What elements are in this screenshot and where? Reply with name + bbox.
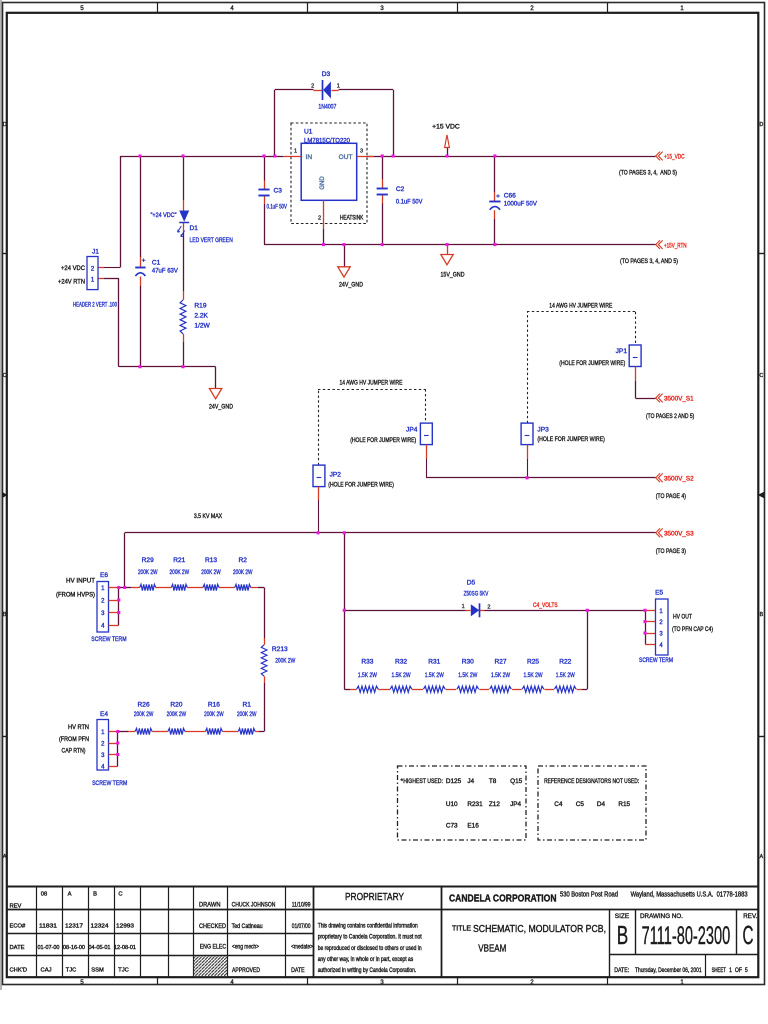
svg-text:C73: C73 bbox=[446, 822, 458, 829]
svg-text:B: B bbox=[93, 892, 97, 898]
svg-text:11831: 11831 bbox=[39, 924, 57, 930]
node C4_VOLTS label bbox=[533, 602, 558, 609]
svg-text:Z12: Z12 bbox=[489, 801, 500, 808]
junctions E4 bbox=[116, 730, 119, 756]
wire JP3 to 3500V_S2 bbox=[527, 445, 529, 478]
resistor R32 bbox=[390, 658, 412, 692]
svg-text:authorized in writing by Cande: authorized in writing by Candela Corpora… bbox=[318, 967, 417, 974]
svg-text:B: B bbox=[617, 920, 629, 950]
svg-text:A: A bbox=[68, 892, 72, 898]
svg-text:SCREW TERM: SCREW TERM bbox=[91, 636, 126, 643]
svg-text:R21: R21 bbox=[173, 557, 185, 564]
svg-text:C2: C2 bbox=[396, 186, 405, 193]
svg-text:R25: R25 bbox=[527, 658, 539, 665]
resistor R213 bbox=[261, 638, 295, 683]
power +15 VDC bbox=[432, 123, 460, 156]
svg-text:15V_GND: 15V_GND bbox=[441, 272, 465, 279]
wire C3 branch bbox=[264, 156, 266, 245]
svg-text:C66: C66 bbox=[504, 193, 516, 200]
svg-text:+15V_RTN: +15V_RTN bbox=[664, 242, 687, 249]
off-page connector +15_VDC bbox=[619, 152, 685, 177]
svg-text:47uF 63V: 47uF 63V bbox=[152, 267, 179, 274]
junctions 24V rail at C1/R19 bbox=[138, 365, 184, 368]
wire JP4 to 3500V_S2 bbox=[426, 445, 428, 478]
svg-text:R1: R1 bbox=[242, 702, 251, 709]
svg-text:12317: 12317 bbox=[65, 924, 83, 930]
junctions top bus bbox=[138, 154, 496, 157]
svg-text:R231: R231 bbox=[467, 801, 483, 808]
svg-text:200K 2W: 200K 2W bbox=[204, 711, 224, 718]
svg-text:1 OF 5: 1 OF 5 bbox=[729, 967, 748, 974]
svg-text:200K 2W: 200K 2W bbox=[233, 569, 253, 576]
svg-text:E4: E4 bbox=[100, 711, 108, 718]
E5 pin stubs and tie bbox=[645, 610, 656, 644]
op-amp U1 LM7815C regulator bbox=[291, 123, 367, 224]
svg-text:SIZE: SIZE bbox=[615, 913, 630, 920]
svg-text:D3: D3 bbox=[322, 71, 331, 78]
svg-text:2.2K: 2.2K bbox=[194, 313, 208, 320]
svg-text:1: 1 bbox=[462, 604, 465, 610]
svg-text:TITLE: TITLE bbox=[452, 924, 471, 933]
svg-text:(TO PFN CAP C4): (TO PFN CAP C4) bbox=[672, 626, 713, 633]
wire HV input chain bbox=[119, 588, 265, 639]
wire D1/R19 branch bbox=[183, 156, 185, 367]
svg-text:CANDELA CORPORATION: CANDELA CORPORATION bbox=[449, 893, 557, 904]
wire 3500V_S3 to C4_VOLTS drop bbox=[344, 533, 346, 689]
svg-text:200K 2W: 200K 2W bbox=[201, 569, 221, 576]
svg-text:<medate>: <medate> bbox=[291, 944, 313, 951]
connector E6 bbox=[56, 572, 127, 643]
svg-text:R26: R26 bbox=[138, 702, 150, 709]
svg-text:200K 2W: 200K 2W bbox=[170, 569, 190, 576]
svg-text:B: B bbox=[3, 612, 7, 618]
svg-text:HV OUT: HV OUT bbox=[673, 613, 692, 620]
ground 24V_GND (regulator) bbox=[338, 267, 363, 289]
wire C4_VOLTS net bbox=[344, 610, 645, 612]
capacitor C2 bbox=[377, 186, 423, 205]
svg-text:TJC: TJC bbox=[118, 968, 129, 974]
svg-text:JP2: JP2 bbox=[330, 471, 342, 478]
svg-text:HV INPUT: HV INPUT bbox=[66, 578, 95, 585]
wire +24V top bus bbox=[120, 156, 656, 268]
svg-text:C1: C1 bbox=[152, 259, 161, 266]
svg-text:C: C bbox=[760, 373, 764, 379]
svg-text:1.5K 2W: 1.5K 2W bbox=[458, 672, 478, 679]
capacitor C1 bbox=[135, 258, 178, 276]
wire R213 to HV RTN chain bbox=[264, 683, 266, 732]
U1 pin 2 bbox=[318, 200, 324, 244]
wire 1.5K chain bbox=[344, 689, 587, 691]
wire C1 branch bbox=[140, 156, 142, 367]
svg-text:1.5K 2W: 1.5K 2W bbox=[491, 672, 511, 679]
svg-text:R15: R15 bbox=[618, 801, 630, 808]
svg-text:be reproduced or disclosed to: be reproduced or disclosed to others or … bbox=[318, 945, 422, 952]
jumper wire note (JP2-JP4) bbox=[318, 379, 426, 465]
svg-text:Thursday, December 06, 2001: Thursday, December 06, 2001 bbox=[635, 967, 702, 974]
svg-text:530 Boston Post Road: 530 Boston Post Road bbox=[560, 891, 618, 898]
svg-text:08: 08 bbox=[41, 892, 47, 898]
svg-text:Z50SG 5KV: Z50SG 5KV bbox=[464, 590, 489, 597]
ground 24V_GND (J1 section) bbox=[209, 389, 233, 411]
svg-text:1.5K 2W: 1.5K 2W bbox=[392, 672, 412, 679]
svg-text:DRAWN: DRAWN bbox=[199, 901, 221, 908]
jumper JP3 bbox=[521, 423, 605, 445]
svg-text:E16: E16 bbox=[467, 822, 479, 829]
svg-text:<eng mech>: <eng mech> bbox=[232, 944, 259, 951]
svg-text:1.5K 2W: 1.5K 2W bbox=[524, 672, 544, 679]
svg-text:12993: 12993 bbox=[116, 924, 134, 930]
svg-text:7111-80-2300: 7111-80-2300 bbox=[642, 922, 731, 950]
svg-text:PROPRIETARY: PROPRIETARY bbox=[345, 891, 404, 903]
svg-text:A: A bbox=[3, 854, 7, 860]
svg-text:CHECKED: CHECKED bbox=[199, 923, 226, 930]
jumper JP4 bbox=[350, 423, 432, 445]
U1 pin 3 bbox=[357, 156, 374, 158]
svg-text:+24 VDC: +24 VDC bbox=[61, 265, 85, 272]
wire J1 pin1 to 24V_GND rail bbox=[98, 278, 216, 388]
svg-text:01/07/00: 01/07/00 bbox=[292, 923, 311, 930]
connector E4 bbox=[59, 711, 127, 787]
resistor R29 bbox=[138, 557, 158, 590]
svg-text:APPROVED: APPROVED bbox=[232, 967, 260, 974]
wire JP1 to 3500V_S1 bbox=[635, 367, 655, 399]
jumper JP1 bbox=[559, 345, 641, 367]
svg-text:12-08-01: 12-08-01 bbox=[114, 945, 136, 951]
svg-text:C5: C5 bbox=[576, 801, 585, 808]
svg-text:R13: R13 bbox=[205, 557, 217, 564]
svg-text:+15 VDC: +15 VDC bbox=[432, 123, 460, 130]
off-page connector 3500V_S2 bbox=[656, 473, 694, 500]
svg-text:200K 2W: 200K 2W bbox=[275, 658, 296, 665]
svg-text:REV: REV bbox=[10, 904, 22, 910]
resistor R2 bbox=[233, 557, 253, 590]
capacitor C66 bbox=[489, 193, 537, 210]
wire C4_VOLTS to R22 drop bbox=[587, 610, 589, 689]
note highest used designators bbox=[398, 766, 527, 840]
svg-text:A: A bbox=[760, 854, 764, 860]
svg-text:R22: R22 bbox=[559, 658, 571, 665]
connector J1 bbox=[58, 249, 117, 309]
svg-text:1000uF 50V: 1000uF 50V bbox=[504, 201, 538, 208]
resistor R19 bbox=[180, 300, 210, 334]
svg-text:11/10/99: 11/10/99 bbox=[292, 901, 311, 908]
svg-text:REV.: REV. bbox=[743, 913, 757, 920]
ground 15V_GND bbox=[441, 245, 465, 279]
svg-text:U1: U1 bbox=[304, 129, 313, 136]
svg-text:3.5 KV MAX: 3.5 KV MAX bbox=[194, 513, 223, 520]
svg-text:B: B bbox=[760, 612, 764, 618]
svg-text:(HOLE FOR JUMPER WIRE): (HOLE FOR JUMPER WIRE) bbox=[537, 436, 605, 443]
svg-text:2: 2 bbox=[311, 84, 314, 90]
svg-text:(FROM HVPS): (FROM HVPS) bbox=[56, 591, 95, 598]
svg-text:J1: J1 bbox=[92, 249, 99, 256]
svg-text:SCHEMATIC, MODULATOR PCB,: SCHEMATIC, MODULATOR PCB, bbox=[473, 924, 606, 935]
svg-text:C: C bbox=[743, 920, 754, 950]
svg-text:TJC: TJC bbox=[66, 968, 77, 974]
off-page connector 3500V_S1 bbox=[646, 394, 694, 420]
svg-text:24V_GND: 24V_GND bbox=[209, 403, 233, 410]
svg-text:2: 2 bbox=[487, 605, 490, 611]
svg-text:(HOLE FOR JUMPER WIRE): (HOLE FOR JUMPER WIRE) bbox=[559, 360, 625, 367]
svg-text:24V_GND: 24V_GND bbox=[339, 281, 363, 288]
resistor R16 bbox=[204, 702, 224, 735]
resistor R13 bbox=[201, 557, 221, 590]
svg-text:CAP RTN): CAP RTN) bbox=[62, 748, 86, 755]
wire 3500V_S2 net bbox=[426, 477, 655, 479]
svg-text:12324: 12324 bbox=[91, 924, 110, 930]
svg-text:REFERENCE DESIGNATORS NOT USED: REFERENCE DESIGNATORS NOT USED: bbox=[544, 778, 639, 785]
svg-text:HEADER 2 VERT .100: HEADER 2 VERT .100 bbox=[73, 301, 117, 308]
svg-text:R213: R213 bbox=[272, 646, 288, 653]
svg-text:ENG ELEC: ENG ELEC bbox=[200, 944, 227, 951]
svg-text:D5: D5 bbox=[467, 579, 476, 586]
resistor R27 bbox=[490, 658, 512, 692]
svg-text:200K 2W: 200K 2W bbox=[134, 711, 154, 718]
jumper JP2 bbox=[313, 465, 394, 489]
svg-text:C: C bbox=[3, 373, 7, 379]
LED D1 bbox=[151, 211, 233, 245]
svg-text:(TO PAGES 2 AND 5): (TO PAGES 2 AND 5) bbox=[646, 413, 694, 420]
svg-text:3500V_S3: 3500V_S3 bbox=[664, 531, 694, 538]
wire J1 pin2 stub bbox=[98, 267, 120, 269]
resistor R31 bbox=[423, 658, 445, 692]
wire HV RTN chain bbox=[118, 731, 264, 733]
svg-text:IN: IN bbox=[306, 154, 313, 161]
E6 pin stubs and tie bbox=[109, 588, 119, 626]
svg-text:OUT: OUT bbox=[339, 154, 353, 161]
wire C2 branch bbox=[382, 156, 384, 245]
svg-text:Wayland, Massachusetts U.S.A.: Wayland, Massachusetts U.S.A. 01778-1883 bbox=[631, 891, 748, 898]
svg-text:R31: R31 bbox=[428, 658, 440, 665]
wire 24V_GND rail (regulator section) bbox=[264, 245, 656, 267]
resistor R22 bbox=[554, 658, 576, 692]
svg-text:C4: C4 bbox=[554, 801, 563, 808]
svg-text:R29: R29 bbox=[142, 557, 154, 564]
svg-text:R19: R19 bbox=[194, 303, 206, 310]
svg-text:DATE: DATE bbox=[10, 945, 25, 951]
svg-text:1.5K 2W: 1.5K 2W bbox=[556, 672, 576, 679]
svg-text:01-07-00: 01-07-00 bbox=[38, 945, 60, 951]
svg-text:JP4: JP4 bbox=[406, 426, 418, 433]
U1 pin 1 bbox=[283, 156, 301, 158]
junctions E5 bbox=[643, 620, 646, 635]
junctions 3500V_S3 bbox=[316, 531, 345, 534]
svg-text:JP4: JP4 bbox=[510, 801, 521, 808]
svg-text:(HOLE FOR JUMPER WIRE): (HOLE FOR JUMPER WIRE) bbox=[350, 437, 416, 444]
svg-text:CAJ: CAJ bbox=[41, 968, 52, 974]
svg-text:D1: D1 bbox=[190, 225, 199, 232]
wire D3 loop bbox=[275, 90, 394, 157]
svg-text:any other way, in whole or in: any other way, in whole or in part, exce… bbox=[318, 956, 414, 963]
off-page connector +15V_RTN bbox=[620, 240, 687, 265]
svg-text:1.5K 2W: 1.5K 2W bbox=[425, 672, 445, 679]
svg-text:200K 2W: 200K 2W bbox=[138, 569, 158, 576]
svg-text:HIGHEST USED:: HIGHEST USED: bbox=[403, 778, 443, 785]
svg-text:200K 2W: 200K 2W bbox=[237, 711, 257, 718]
svg-text:JP3: JP3 bbox=[537, 426, 549, 433]
svg-text:LED VERT GREEN: LED VERT GREEN bbox=[190, 237, 233, 244]
resistor R30 bbox=[457, 658, 479, 692]
svg-text:+15_VDC: +15_VDC bbox=[664, 154, 685, 161]
svg-text:1N4007: 1N4007 bbox=[318, 104, 336, 111]
svg-text:SSM: SSM bbox=[91, 968, 104, 974]
svg-text:ECO#: ECO# bbox=[10, 924, 27, 930]
svg-text:3500V_S2: 3500V_S2 bbox=[664, 476, 694, 483]
junctions lower rail bbox=[322, 243, 497, 246]
svg-text:R2: R2 bbox=[238, 557, 247, 564]
svg-text:+24V RTN: +24V RTN bbox=[58, 278, 85, 285]
svg-text:1.5K 2W: 1.5K 2W bbox=[358, 672, 378, 679]
svg-text:08-16-00: 08-16-00 bbox=[63, 945, 85, 951]
capacitor C3 bbox=[258, 187, 287, 210]
resistor R21 bbox=[170, 557, 190, 590]
svg-text:0.1uF 50V: 0.1uF 50V bbox=[267, 203, 288, 210]
svg-text:3500V_S1: 3500V_S1 bbox=[664, 396, 694, 403]
svg-text:Q15: Q15 bbox=[510, 778, 523, 785]
svg-text:1: 1 bbox=[337, 84, 340, 90]
resistor R33 bbox=[357, 658, 379, 692]
svg-text:U10: U10 bbox=[446, 801, 458, 808]
svg-text:D: D bbox=[760, 122, 764, 128]
svg-text:SHEET: SHEET bbox=[712, 967, 726, 974]
svg-text:J4: J4 bbox=[467, 778, 474, 785]
svg-text:R32: R32 bbox=[395, 658, 407, 665]
svg-text:14 AWG HV JUMPER WIRE: 14 AWG HV JUMPER WIRE bbox=[549, 303, 612, 310]
svg-text:(TO PAGES 3, 4, AND 5): (TO PAGES 3, 4, AND 5) bbox=[619, 169, 677, 176]
svg-text:04-05-01: 04-05-01 bbox=[89, 945, 111, 951]
svg-text:E6: E6 bbox=[100, 572, 108, 579]
resistor R25 bbox=[522, 658, 544, 692]
svg-text:C: C bbox=[118, 892, 122, 898]
svg-text:14 AWG HV JUMPER WIRE: 14 AWG HV JUMPER WIRE bbox=[340, 379, 403, 386]
connector E5 bbox=[639, 590, 713, 664]
resistor R1 bbox=[237, 702, 257, 735]
svg-text:This drawing contains confiden: This drawing contains confidential infor… bbox=[318, 923, 418, 930]
svg-text:1: 1 bbox=[294, 148, 297, 154]
wire JP2 to 3500V_S3 bbox=[318, 487, 320, 533]
resistor R20 bbox=[167, 702, 187, 735]
svg-text:CHK'D: CHK'D bbox=[10, 968, 28, 974]
svg-text:E5: E5 bbox=[655, 590, 663, 597]
svg-text:3: 3 bbox=[360, 148, 363, 154]
junctions E6 bbox=[117, 586, 126, 614]
svg-text:T8: T8 bbox=[489, 778, 497, 785]
svg-text:(TO PAGES 3, 4, AND 5): (TO PAGES 3, 4, AND 5) bbox=[620, 258, 678, 265]
svg-text:SCREW TERM: SCREW TERM bbox=[639, 657, 673, 664]
svg-text:DRAWING NO.: DRAWING NO. bbox=[640, 913, 683, 920]
svg-text:D4: D4 bbox=[597, 801, 606, 808]
svg-text:D125: D125 bbox=[446, 778, 462, 785]
svg-text:LM7815C/TO220: LM7815C/TO220 bbox=[304, 138, 350, 145]
svg-text:proprietary to Candela Corpora: proprietary to Candela Corporation. It m… bbox=[318, 934, 422, 941]
svg-text:1/2W: 1/2W bbox=[194, 323, 210, 330]
jumper wire note (JP3-JP1) bbox=[527, 303, 636, 424]
svg-text:VBEAM: VBEAM bbox=[478, 943, 506, 954]
diode D3 1N4007 bbox=[311, 71, 340, 111]
svg-text:(FROM PFN: (FROM PFN bbox=[59, 736, 89, 743]
wire 3500V_S3 net / 3.5 KV MAX bbox=[125, 513, 656, 587]
svg-text:(TO PAGE 4): (TO PAGE 4) bbox=[656, 493, 686, 500]
svg-text:R20: R20 bbox=[170, 702, 182, 709]
svg-text:200K 2W: 200K 2W bbox=[167, 711, 187, 718]
svg-text:GND: GND bbox=[320, 176, 326, 190]
svg-text:R27: R27 bbox=[494, 658, 506, 665]
svg-text:HV RTN: HV RTN bbox=[68, 724, 89, 731]
svg-text:(TO PAGE 3): (TO PAGE 3) bbox=[656, 548, 686, 555]
svg-text:JP1: JP1 bbox=[616, 348, 628, 355]
diode D5 Z50SG bbox=[462, 579, 491, 617]
svg-text:HEATSINK: HEATSINK bbox=[340, 214, 364, 221]
junctions C4_VOLTS bbox=[343, 609, 647, 612]
svg-text:C3: C3 bbox=[274, 187, 283, 194]
wire C66 branch bbox=[494, 156, 496, 245]
svg-text:C4_VOLTS: C4_VOLTS bbox=[533, 602, 558, 609]
svg-text:2: 2 bbox=[318, 215, 321, 221]
svg-text:Ted Catineau: Ted Catineau bbox=[232, 923, 263, 930]
svg-text:"+24 VDC": "+24 VDC" bbox=[151, 212, 177, 219]
junction 3500V_S2 at JP3 bbox=[525, 476, 528, 479]
svg-text:R30: R30 bbox=[462, 658, 474, 665]
note reference designators not used bbox=[538, 766, 646, 840]
svg-text:DATE: DATE bbox=[291, 967, 305, 974]
svg-text:SCREW TERM: SCREW TERM bbox=[92, 780, 127, 787]
svg-text:(HOLE FOR JUMPER WIRE): (HOLE FOR JUMPER WIRE) bbox=[328, 482, 394, 489]
svg-text:D: D bbox=[3, 122, 7, 128]
svg-text:CHUCK JOHNSON: CHUCK JOHNSON bbox=[232, 901, 276, 908]
resistor R26 bbox=[134, 702, 154, 735]
E4 pin stubs and tie bbox=[109, 732, 118, 767]
svg-text:DATE:: DATE: bbox=[614, 967, 629, 974]
svg-text:R33: R33 bbox=[361, 658, 373, 665]
off-page connector 3500V_S3 bbox=[656, 528, 694, 555]
svg-text:R16: R16 bbox=[208, 702, 220, 709]
svg-text:0.1uF 50V: 0.1uF 50V bbox=[396, 198, 423, 205]
